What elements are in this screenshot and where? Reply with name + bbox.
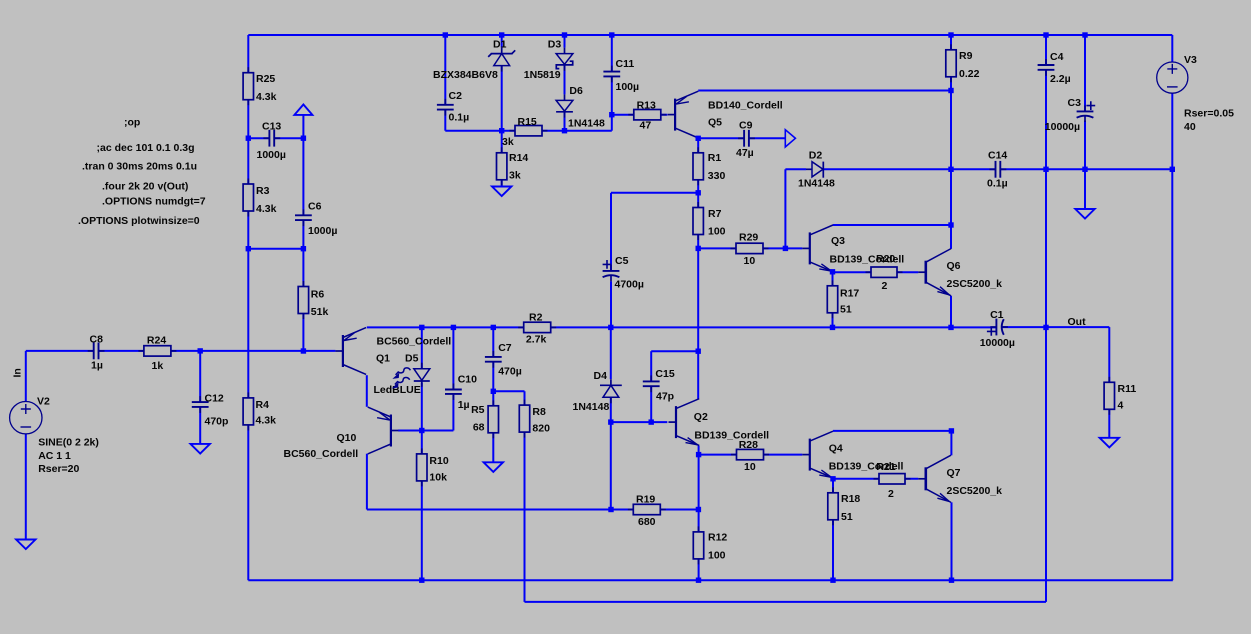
resistor R19 xyxy=(628,509,634,511)
svg-text:C9: C9 xyxy=(739,119,753,131)
svg-text:1000µ: 1000µ xyxy=(257,149,286,161)
resistor R15 xyxy=(510,130,516,132)
svg-text:R14: R14 xyxy=(509,152,528,164)
wire R1-R7 column x698 xyxy=(697,138,699,327)
svg-text:AC 1 1: AC 1 1 xyxy=(38,450,71,462)
wire Q4 collector row y430.9 xyxy=(833,430,951,432)
wire C5 column xyxy=(610,193,612,271)
svg-text:C3: C3 xyxy=(1068,97,1082,109)
wire Q7 collector pin xyxy=(950,431,952,455)
svg-text:51: 51 xyxy=(840,304,852,316)
svg-text:R2: R2 xyxy=(529,311,543,323)
resistor R6 xyxy=(302,281,304,287)
pnp transistor Q5 xyxy=(674,99,676,131)
svg-text:R24: R24 xyxy=(147,335,166,347)
svg-text:R13: R13 xyxy=(637,100,656,112)
capacitor C15 xyxy=(650,375,652,381)
svg-text:1N4148: 1N4148 xyxy=(573,401,610,413)
capacitor C10 xyxy=(452,384,454,390)
svg-text:330: 330 xyxy=(708,170,726,182)
ground under V2 xyxy=(16,540,35,550)
svg-text:R15: R15 xyxy=(518,116,537,128)
svg-text:4.3k: 4.3k xyxy=(256,203,277,215)
resistor R17 xyxy=(832,280,834,286)
resistor R8 xyxy=(524,400,526,406)
svg-text:C15: C15 xyxy=(655,368,674,380)
capacitor C14 xyxy=(990,168,996,170)
svg-text:R10: R10 xyxy=(429,455,448,467)
capacitor C6 xyxy=(302,209,304,215)
svg-text:BC560_Cordell: BC560_Cordell xyxy=(377,336,452,348)
svg-text:D3: D3 xyxy=(548,38,562,50)
wire R1-C5 link y192.8 xyxy=(611,192,698,194)
svg-text:R21: R21 xyxy=(876,461,895,473)
svg-text:R12: R12 xyxy=(708,532,727,544)
wire Q2 emitter column xyxy=(698,446,700,581)
wire V3 right column xyxy=(1171,93,1173,580)
svg-text:4.3k: 4.3k xyxy=(256,91,277,103)
led D5 xyxy=(421,363,423,369)
wire R9 column x951 xyxy=(950,35,952,225)
svg-text:68: 68 xyxy=(473,422,485,434)
svg-text:R9: R9 xyxy=(959,50,973,62)
wire D4 column xyxy=(610,327,612,379)
svg-text:2: 2 xyxy=(888,488,894,500)
pnp transistor Q1 xyxy=(342,335,344,367)
resistor R11 xyxy=(1108,377,1110,383)
svg-text:D1: D1 xyxy=(493,38,507,50)
svg-text:R3: R3 xyxy=(256,185,270,197)
wire C2 column xyxy=(444,35,446,105)
resistor R14 xyxy=(501,147,503,153)
diode D6 xyxy=(564,94,566,100)
svg-text:C11: C11 xyxy=(616,58,635,70)
wire R20 row y272.2 xyxy=(833,271,919,273)
resistor R25 xyxy=(247,67,249,73)
svg-text:1000µ: 1000µ xyxy=(308,225,337,237)
wire R17 column xyxy=(832,272,834,328)
capacitor C13 xyxy=(263,137,269,139)
svg-text:100µ: 100µ xyxy=(616,81,640,93)
resistor R24 xyxy=(138,350,144,352)
svg-text:470p: 470p xyxy=(205,416,229,428)
resistor R1 xyxy=(697,147,699,153)
ground near C3 on C14 rail xyxy=(1075,209,1094,219)
svg-text:0.1µ: 0.1µ xyxy=(987,178,1008,190)
svg-text:D4: D4 xyxy=(594,370,608,382)
svg-text:47: 47 xyxy=(640,120,652,132)
pnp transistor Q10 (mirrored) xyxy=(390,415,392,447)
svg-text:820: 820 xyxy=(532,422,550,434)
resistor R28 xyxy=(731,454,737,456)
polar capacitor C1 xyxy=(990,326,996,328)
capacitor C11 xyxy=(611,66,613,72)
voltage source V3 xyxy=(1157,62,1188,93)
wire C10 column xyxy=(452,327,454,389)
svg-text:SINE(0 2 2k): SINE(0 2 2k) xyxy=(38,437,99,449)
wire Q6 collector pin xyxy=(950,225,952,249)
polar capacitor C5 xyxy=(610,265,612,271)
svg-text:Q6: Q6 xyxy=(947,260,961,272)
wire R19 row y509.5 xyxy=(367,509,699,511)
svg-text:C2: C2 xyxy=(449,90,463,102)
wire Q6 emitter pin xyxy=(950,296,952,328)
resistor R5 xyxy=(492,400,494,406)
resistor R21 (overlapping label) xyxy=(874,478,880,480)
svg-text:BD140_Cordell: BD140_Cordell xyxy=(708,100,783,112)
svg-text:;op: ;op xyxy=(124,117,140,129)
svg-text:V3: V3 xyxy=(1184,54,1197,66)
svg-text:1µ: 1µ xyxy=(458,399,470,411)
wire C15 column xyxy=(650,351,652,381)
svg-text:Q4: Q4 xyxy=(829,443,843,455)
npn transistor Q3 xyxy=(809,232,811,264)
svg-text:R7: R7 xyxy=(708,208,722,220)
diode D2 xyxy=(806,168,812,170)
svg-text:D5: D5 xyxy=(405,353,419,365)
svg-text:680: 680 xyxy=(638,516,656,528)
capacitor C2 xyxy=(444,99,446,105)
svg-text:Q1: Q1 xyxy=(376,353,390,365)
svg-text:BZX384B6V8: BZX384B6V8 xyxy=(433,69,498,81)
wire D4 row y422.1 xyxy=(611,421,668,423)
resistor R4 xyxy=(247,392,249,398)
resistor R7 xyxy=(697,202,699,208)
svg-text:C4: C4 xyxy=(1050,51,1064,63)
svg-text:Rser=0.05: Rser=0.05 xyxy=(1184,107,1234,119)
wire R29 row y248.4 xyxy=(698,247,802,249)
wire Q10 collector drop xyxy=(366,454,368,510)
capacitor C9 xyxy=(738,137,744,139)
svg-text:C8: C8 xyxy=(90,334,104,346)
ground under R11 xyxy=(1100,438,1119,448)
wire Q1 collector link xyxy=(366,375,368,407)
svg-text:R19: R19 xyxy=(636,494,655,506)
svg-text:C13: C13 xyxy=(262,121,281,133)
wire V3 top drop xyxy=(1171,35,1173,62)
svg-text:0.22: 0.22 xyxy=(959,68,980,80)
svg-text:R28: R28 xyxy=(739,439,758,451)
wire C13 row left xyxy=(248,137,269,139)
wire C12 column xyxy=(199,351,201,402)
voltage source V2 xyxy=(10,402,42,434)
wire C3 column xyxy=(1084,35,1086,111)
svg-text:3k: 3k xyxy=(509,170,521,182)
diode D4 xyxy=(610,379,612,385)
wire D2 anode lead xyxy=(785,168,806,170)
npn power transistor Q6 xyxy=(924,261,927,284)
svg-text:C6: C6 xyxy=(308,201,322,213)
resistor R9 xyxy=(950,44,952,50)
capacitor C8 xyxy=(88,350,94,352)
wire C7-R8 link y391.3 xyxy=(493,390,524,392)
svg-text:470µ: 470µ xyxy=(498,366,522,378)
wire C9 row y138.3 xyxy=(698,137,744,139)
flipped ground flag above C13 node xyxy=(294,105,312,115)
wire R11 column xyxy=(1108,327,1110,438)
resistor R18 xyxy=(832,487,834,493)
svg-text:BC560_Cordell: BC560_Cordell xyxy=(284,448,359,460)
svg-text:;ac dec 101 0.1 0.3g: ;ac dec 101 0.1 0.3g xyxy=(97,142,195,154)
svg-text:.tran 0 30ms 20ms 0.1u: .tran 0 30ms 20ms 0.1u xyxy=(82,160,197,172)
svg-text:0.1µ: 0.1µ xyxy=(449,112,470,124)
svg-text:R20: R20 xyxy=(876,253,895,265)
resistor R3 xyxy=(247,179,249,185)
resistor R10 xyxy=(421,448,423,454)
wire C13 gnd-flag column xyxy=(302,115,304,215)
wire D5-R10 column xyxy=(421,327,423,368)
zener diode D1 xyxy=(501,48,503,54)
svg-text:1N4148: 1N4148 xyxy=(568,117,605,129)
wire D1 column xyxy=(501,35,503,48)
wire R18 column xyxy=(832,479,834,580)
wire Q3 collector row y225 xyxy=(833,224,951,226)
npn power transistor Q7 xyxy=(924,467,927,490)
svg-text:In: In xyxy=(12,368,24,377)
svg-text:D2: D2 xyxy=(809,150,823,162)
svg-text:.four 2k 20 v(Out): .four 2k 20 v(Out) xyxy=(102,181,188,193)
svg-text:R8: R8 xyxy=(532,406,546,418)
svg-text:R1: R1 xyxy=(708,152,722,164)
svg-text:47p: 47p xyxy=(656,391,674,403)
ground under C12 xyxy=(191,444,210,454)
svg-text:10: 10 xyxy=(744,255,756,267)
ground under R14 xyxy=(492,187,511,197)
capacitor C12 xyxy=(199,396,201,402)
wire left junction row y248.7 xyxy=(248,248,303,250)
svg-text:1µ: 1µ xyxy=(91,360,103,372)
svg-text:C14: C14 xyxy=(988,149,1007,161)
svg-text:1N4148: 1N4148 xyxy=(798,178,835,190)
svg-text:10k: 10k xyxy=(429,472,447,484)
svg-text:Out: Out xyxy=(1068,316,1087,328)
junction dots xyxy=(443,32,448,37)
svg-text:2.2µ: 2.2µ xyxy=(1050,73,1071,85)
wire C13 row right xyxy=(274,137,303,139)
svg-text:10000µ: 10000µ xyxy=(1045,121,1080,133)
led D5 emission arrows xyxy=(396,368,411,375)
svg-text:C7: C7 xyxy=(498,342,512,354)
svg-text:2.7k: 2.7k xyxy=(526,334,547,346)
capacitor C4 xyxy=(1045,59,1047,65)
resistor R20 xyxy=(866,271,872,273)
svg-text:R29: R29 xyxy=(739,231,758,243)
wire D2 anode drop x785 xyxy=(784,169,786,248)
svg-text:4.3k: 4.3k xyxy=(256,414,277,426)
svg-text:R6: R6 xyxy=(311,289,325,301)
wire main mid rail y327.4 xyxy=(367,326,997,328)
wire C1-out drop x1046 xyxy=(1045,70,1047,602)
svg-text:Q2: Q2 xyxy=(694,411,708,423)
resistor R12 xyxy=(698,526,700,532)
wire top +rail xyxy=(248,34,1172,36)
svg-text:2SC5200_k: 2SC5200_k xyxy=(947,278,1003,290)
svg-text:51k: 51k xyxy=(311,306,329,318)
svg-text:10: 10 xyxy=(744,461,756,473)
svg-text:4: 4 xyxy=(1118,400,1124,412)
svg-text:Q3: Q3 xyxy=(831,235,845,247)
wire C11 column xyxy=(611,35,613,72)
svg-text:.OPTIONS numdgt=7: .OPTIONS numdgt=7 xyxy=(102,195,206,207)
svg-text:C1: C1 xyxy=(990,309,1004,321)
svg-text:3k: 3k xyxy=(502,136,514,148)
wire R8 column xyxy=(524,391,526,602)
wire R13 row y114.7 xyxy=(612,114,668,116)
wire C7-R5 column xyxy=(492,327,494,357)
svg-text:2: 2 xyxy=(882,280,888,292)
wire D3-D6 column xyxy=(564,35,566,48)
svg-text:51: 51 xyxy=(841,511,853,523)
wire C4 column xyxy=(1045,35,1047,65)
svg-text:Rser=20: Rser=20 xyxy=(38,463,79,475)
wire Q7 emitter pin xyxy=(951,502,953,580)
output port arrow after C9 xyxy=(785,130,795,147)
svg-text:R11: R11 xyxy=(1118,383,1137,395)
svg-text:47µ: 47µ xyxy=(736,147,754,159)
svg-text:1k: 1k xyxy=(152,360,164,372)
wire R28 row y454.6 xyxy=(699,454,803,456)
svg-text:40: 40 xyxy=(1184,121,1196,133)
svg-text:2SC5200_k: 2SC5200_k xyxy=(947,485,1003,497)
svg-text:10000µ: 10000µ xyxy=(980,337,1015,349)
resistor R2 xyxy=(518,326,524,328)
svg-text:C10: C10 xyxy=(458,374,477,386)
wire D2 cathode to C14 rail xyxy=(823,168,995,170)
schottky diode D3 xyxy=(564,48,566,54)
ground under R5 xyxy=(484,462,503,472)
svg-text:100: 100 xyxy=(708,225,726,237)
svg-text:R17: R17 xyxy=(840,287,859,299)
svg-text:Q5: Q5 xyxy=(708,116,722,128)
wire C14 rail right xyxy=(1000,168,1172,170)
svg-text:Q10: Q10 xyxy=(337,432,357,444)
wire R21 row y478.8 xyxy=(833,478,918,480)
svg-text:V2: V2 xyxy=(37,395,50,407)
wire C15 link y351.2 xyxy=(651,350,698,352)
svg-text:Q7: Q7 xyxy=(947,467,961,479)
polar capacitor C3 xyxy=(1084,105,1086,111)
wire lower rail y602 xyxy=(525,601,1047,603)
npn transistor Q4 xyxy=(809,439,811,471)
wire Q10 base row y430.5 xyxy=(398,430,453,432)
wire VAS column x698 lower xyxy=(697,327,699,398)
svg-text:R5: R5 xyxy=(471,404,485,416)
capacitor C7 xyxy=(492,351,494,357)
svg-text:R25: R25 xyxy=(256,73,275,85)
svg-text:100: 100 xyxy=(708,549,726,561)
svg-text:C5: C5 xyxy=(615,255,629,267)
wire Q5 emitter rail y90 xyxy=(698,90,951,92)
wire zener row y130.7 xyxy=(445,130,612,132)
svg-text:1N5819: 1N5819 xyxy=(524,69,561,81)
resistor R29 xyxy=(731,247,737,249)
npn transistor Q2 xyxy=(675,406,677,438)
resistor R13 xyxy=(628,114,634,116)
wire left column x248 xyxy=(247,35,249,580)
wire bottom rail y580 xyxy=(248,579,1173,581)
svg-text:R4: R4 xyxy=(256,399,270,411)
wire V2 column xyxy=(25,351,27,402)
svg-text:.OPTIONS plotwinsize=0: .OPTIONS plotwinsize=0 xyxy=(78,215,200,227)
svg-text:C12: C12 xyxy=(205,392,224,404)
wire out rail right of C1 xyxy=(1002,326,1109,328)
svg-text:4700µ: 4700µ xyxy=(615,279,644,291)
svg-text:D6: D6 xyxy=(569,85,583,97)
wire input row y350.9 xyxy=(26,350,94,352)
svg-text:R18: R18 xyxy=(841,493,860,505)
